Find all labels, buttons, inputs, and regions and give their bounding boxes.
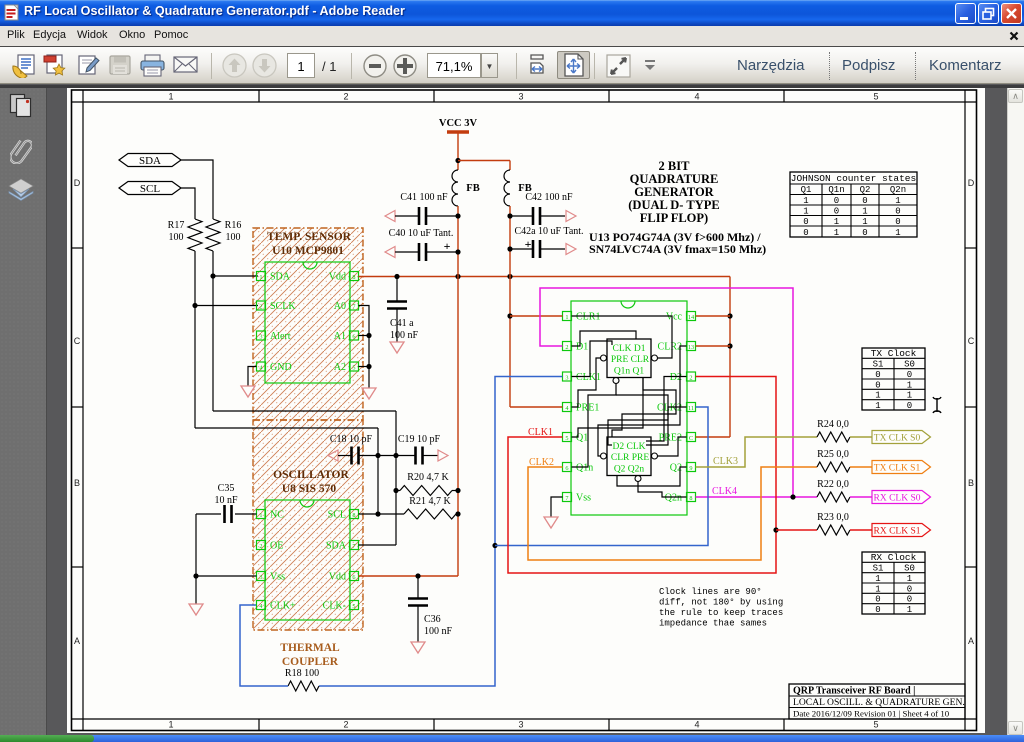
svg-text:0: 0: [895, 207, 900, 217]
svg-text:S1: S1: [873, 360, 884, 370]
svg-text:13: 13: [688, 344, 694, 351]
svg-text:the rule to keep traces: the rule to keep traces: [659, 608, 783, 618]
svg-text:0: 0: [862, 228, 867, 238]
svg-text:5: 5: [873, 92, 878, 102]
svg-text:SDA: SDA: [139, 155, 161, 167]
svg-text:Alert: Alert: [270, 331, 291, 342]
svg-text:R24 0,0: R24 0,0: [817, 419, 849, 430]
svg-text:NC: NC: [270, 510, 284, 521]
svg-text:1: 1: [907, 391, 912, 401]
svg-text:QUADRATURE: QUADRATURE: [630, 172, 719, 186]
svg-text:S1: S1: [873, 564, 884, 574]
svg-text:THERMAL: THERMAL: [280, 642, 340, 654]
svg-text:3: 3: [259, 333, 262, 340]
svg-text:JOHNSON counter states: JOHNSON counter states: [791, 173, 916, 184]
svg-text:SCL: SCL: [140, 183, 160, 195]
svg-text:TX CLK S0: TX CLK S0: [874, 434, 921, 444]
svg-text:0: 0: [907, 584, 912, 594]
svg-text:5: 5: [565, 435, 568, 442]
svg-text:CLK-: CLK-: [323, 601, 346, 612]
svg-text:CLR2: CLR2: [658, 342, 682, 353]
svg-text:COUPLER: COUPLER: [282, 656, 339, 668]
svg-text:D1: D1: [576, 342, 588, 353]
svg-text:R20 4,7 K: R20 4,7 K: [407, 472, 449, 483]
svg-text:0: 0: [907, 370, 912, 380]
svg-text:14: 14: [688, 314, 695, 321]
svg-text:1: 1: [907, 380, 912, 390]
svg-text:CLK4: CLK4: [712, 486, 737, 497]
svg-text:3: 3: [518, 92, 523, 102]
svg-text:5: 5: [352, 603, 355, 610]
svg-text:2: 2: [343, 720, 348, 730]
svg-text:R22 0,0: R22 0,0: [817, 479, 849, 490]
svg-text:7: 7: [352, 303, 355, 310]
svg-text:0: 0: [862, 196, 867, 206]
svg-text:TX CLK S1: TX CLK S1: [874, 464, 921, 474]
svg-text:Vss: Vss: [576, 493, 591, 504]
svg-text:1: 1: [803, 207, 808, 217]
svg-text:5: 5: [352, 364, 355, 371]
svg-text:GND: GND: [270, 362, 292, 373]
svg-text:0: 0: [875, 380, 880, 390]
svg-text:PRE CLR: PRE CLR: [611, 355, 650, 365]
svg-text:6: 6: [352, 574, 355, 581]
svg-text:C: C: [689, 435, 693, 442]
svg-text:RX CLK S1: RX CLK S1: [874, 527, 921, 537]
svg-text:Q1: Q1: [801, 185, 812, 195]
svg-text:0: 0: [834, 207, 839, 217]
svg-text:1: 1: [259, 512, 262, 519]
svg-text:2: 2: [343, 92, 348, 102]
svg-text:0: 0: [803, 228, 808, 238]
svg-text:D2 CLK: D2 CLK: [613, 442, 646, 452]
svg-text:10 nF: 10 nF: [214, 495, 238, 506]
svg-text:0: 0: [875, 595, 880, 605]
svg-text:1: 1: [875, 391, 880, 401]
svg-text:Vss: Vss: [270, 572, 285, 583]
svg-text:(DUAL D- TYPE: (DUAL D- TYPE: [628, 198, 719, 212]
svg-text:C42 100 nF: C42 100 nF: [525, 192, 573, 203]
svg-text:2: 2: [259, 543, 262, 550]
svg-text:3: 3: [565, 374, 568, 381]
svg-text:SN74LVC74A (3V fmax=150 Mhz): SN74LVC74A (3V fmax=150 Mhz): [589, 242, 766, 256]
svg-text:4: 4: [694, 92, 699, 102]
svg-text:2 BIT: 2 BIT: [659, 159, 691, 173]
svg-text:FLIP FLOP): FLIP FLOP): [640, 211, 708, 225]
svg-text:1: 1: [168, 720, 173, 730]
svg-text:0: 0: [875, 370, 880, 380]
svg-text:1: 1: [875, 401, 880, 411]
svg-text:2: 2: [565, 344, 568, 351]
svg-text:1: 1: [803, 196, 808, 206]
svg-text:1: 1: [862, 217, 867, 227]
svg-text:Q2n: Q2n: [665, 493, 682, 504]
svg-text:S0: S0: [904, 360, 915, 370]
svg-text:11: 11: [688, 405, 694, 412]
svg-text:R17: R17: [168, 220, 185, 231]
svg-text:+: +: [444, 239, 451, 253]
svg-text:C18 10 pF: C18 10 pF: [330, 434, 373, 445]
svg-text:RX Clock: RX Clock: [871, 552, 917, 563]
svg-text:R25 0,0: R25 0,0: [817, 449, 849, 460]
svg-text:diff, not 180° by using: diff, not 180° by using: [659, 598, 783, 608]
svg-text:7: 7: [565, 495, 568, 502]
svg-text:CLK2: CLK2: [529, 457, 554, 468]
svg-text:2: 2: [259, 303, 262, 310]
svg-text:9: 9: [689, 465, 692, 472]
svg-text:C: C: [74, 336, 81, 346]
svg-text:C42a 10 uF Tant.: C42a 10 uF Tant.: [514, 226, 583, 237]
svg-text:CLK2: CLK2: [657, 403, 682, 414]
svg-text:CLK+: CLK+: [270, 601, 296, 612]
svg-text:1: 1: [875, 584, 880, 594]
svg-text:LOCAL OSCILL. & QUADRATURE GEN: LOCAL OSCILL. & QUADRATURE GEN.: [793, 697, 965, 708]
svg-text:D: D: [968, 178, 975, 188]
svg-text:SDA: SDA: [326, 541, 347, 552]
svg-text:Q1n Q1: Q1n Q1: [614, 367, 645, 377]
svg-text:1: 1: [907, 574, 912, 584]
svg-text:QRP Transceiver RF Board |: QRP Transceiver RF Board |: [793, 686, 915, 697]
svg-text:CLK1: CLK1: [528, 427, 553, 438]
svg-text:100 nF: 100 nF: [390, 330, 419, 341]
svg-text:U8 SIS 570: U8 SIS 570: [282, 483, 337, 495]
svg-text:3: 3: [518, 720, 523, 730]
svg-text:TX Clock: TX Clock: [871, 348, 917, 359]
svg-text:SDA: SDA: [270, 272, 291, 283]
svg-text:Q2n: Q2n: [890, 185, 906, 195]
svg-text:SCLK: SCLK: [270, 301, 296, 312]
svg-text:8: 8: [352, 274, 355, 281]
svg-text:2: 2: [689, 374, 692, 381]
svg-text:GENERATOR: GENERATOR: [634, 185, 714, 199]
svg-text:A0: A0: [334, 301, 346, 312]
svg-text:1: 1: [834, 217, 839, 227]
svg-text:FB: FB: [466, 183, 479, 194]
svg-text:Date 2016/12/09 Revision 01: Date 2016/12/09 Revision 01 | Sheet 4 of…: [793, 709, 950, 719]
svg-text:TEMP. SENSOR: TEMP. SENSOR: [267, 231, 352, 243]
svg-text:5: 5: [873, 720, 878, 730]
svg-text:OE: OE: [270, 541, 283, 552]
svg-text:0: 0: [803, 217, 808, 227]
svg-text:100 nF: 100 nF: [424, 626, 453, 637]
svg-text:Q1n: Q1n: [576, 463, 593, 474]
svg-text:1: 1: [565, 314, 568, 321]
svg-text:Vdd: Vdd: [329, 272, 346, 283]
svg-text:0: 0: [875, 605, 880, 615]
svg-text:Q2: Q2: [860, 185, 871, 195]
svg-text:1: 1: [834, 228, 839, 238]
svg-text:C35: C35: [218, 483, 235, 494]
svg-text:C: C: [968, 336, 975, 346]
svg-text:R16: R16: [225, 220, 242, 231]
svg-text:0: 0: [834, 196, 839, 206]
svg-text:B: B: [968, 478, 974, 488]
svg-text:CLK3: CLK3: [713, 456, 738, 467]
svg-text:SCL: SCL: [328, 510, 346, 521]
svg-text:CLK1: CLK1: [576, 372, 601, 383]
svg-text:C36: C36: [424, 614, 441, 625]
svg-text:1: 1: [907, 605, 912, 615]
svg-text:4: 4: [694, 720, 699, 730]
svg-text:Vcc: Vcc: [666, 312, 683, 323]
svg-text:D: D: [74, 178, 81, 188]
svg-text:CLK D1: CLK D1: [613, 344, 646, 354]
svg-text:C40 10 uF Tant.: C40 10 uF Tant.: [389, 228, 454, 239]
svg-text:CLR1: CLR1: [576, 312, 600, 323]
svg-text:100: 100: [226, 232, 241, 243]
svg-text:RX CLK S0: RX CLK S0: [874, 494, 921, 504]
svg-text:VCC 3V: VCC 3V: [439, 118, 478, 129]
svg-text:+: +: [525, 237, 532, 251]
svg-text:C41 100 nF: C41 100 nF: [400, 192, 448, 203]
svg-text:7: 7: [352, 543, 355, 550]
svg-text:R23 0,0: R23 0,0: [817, 512, 849, 523]
svg-text:1: 1: [875, 574, 880, 584]
svg-text:1: 1: [259, 274, 262, 281]
svg-text:8: 8: [689, 495, 692, 502]
svg-text:impedance thae sames: impedance thae sames: [659, 619, 767, 629]
svg-text:1: 1: [895, 228, 900, 238]
svg-text:A1: A1: [334, 331, 346, 342]
svg-text:6: 6: [352, 333, 355, 340]
svg-text:100: 100: [169, 232, 184, 243]
svg-text:R21 4,7 K: R21 4,7 K: [409, 496, 451, 507]
svg-text:A: A: [968, 636, 974, 646]
svg-text:3: 3: [259, 574, 262, 581]
svg-text:B: B: [74, 478, 80, 488]
svg-text:Clock lines are 90°: Clock lines are 90°: [659, 587, 762, 597]
svg-text:1: 1: [862, 207, 867, 217]
svg-text:OSCILLATOR: OSCILLATOR: [273, 469, 349, 481]
svg-text:C19 10 pF: C19 10 pF: [398, 434, 441, 445]
svg-text:1: 1: [895, 196, 900, 206]
svg-text:U10 MCP9801: U10 MCP9801: [272, 245, 344, 257]
svg-text:1: 1: [168, 92, 173, 102]
svg-text:CLR PRE: CLR PRE: [611, 453, 649, 463]
svg-text:A: A: [74, 636, 80, 646]
svg-text:0: 0: [907, 595, 912, 605]
svg-text:Vdd: Vdd: [329, 572, 346, 583]
svg-text:8: 8: [352, 512, 355, 519]
svg-text:6: 6: [565, 465, 568, 472]
svg-text:Q2 Q2n: Q2 Q2n: [614, 465, 645, 475]
svg-text:R18 100: R18 100: [285, 668, 319, 679]
svg-text:Q1n: Q1n: [828, 185, 844, 195]
svg-text:0: 0: [895, 217, 900, 227]
svg-text:A2: A2: [334, 362, 346, 373]
svg-text:C41 a: C41 a: [390, 318, 414, 329]
svg-text:S0: S0: [904, 564, 915, 574]
svg-text:0: 0: [907, 401, 912, 411]
